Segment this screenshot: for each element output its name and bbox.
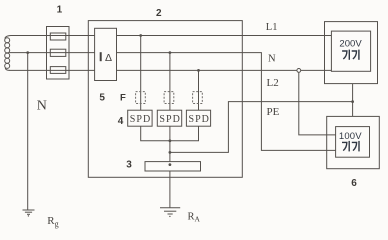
svg-text:L2: L2: [267, 77, 279, 89]
svg-text:4: 4: [118, 116, 124, 127]
200V appliance outer enclosure: [325, 22, 378, 84]
junction node on N at earthing riser: [26, 51, 29, 54]
wire L1 (top phase conductor): [11, 35, 332, 37]
100V appliance outer enclosure 6: [327, 116, 380, 168]
SPD disconnector fuse F1 (dashed): [136, 92, 146, 104]
100V appliance hangul "kiki": [342, 141, 359, 152]
svg-text:N: N: [268, 53, 276, 64]
terminal node (open circle) on L2 feeding 100V appliance: [297, 69, 301, 73]
svg-text:100V: 100V: [339, 131, 362, 142]
svg-text:1: 1: [57, 5, 63, 16]
svg-text:L1: L1: [266, 22, 278, 33]
junction node L2/SPD3: [197, 69, 200, 72]
junction node L1/SPD1: [139, 34, 142, 37]
RCD / breaker U5 (I-delta device): [95, 28, 117, 80]
RCD text I-delta: [100, 52, 112, 64]
svg-text:N: N: [37, 98, 47, 113]
wire N (centre-tap neutral: horizontal run, jog down at x=261, feed to 100V appliance): [9, 53, 335, 151]
wire SPD output bus: [141, 126, 199, 141]
SPD arrester 1: [128, 110, 152, 126]
svg-text:Δ: Δ: [105, 52, 112, 64]
svg-text:200V: 200V: [339, 38, 362, 49]
svg-text:PE: PE: [267, 106, 280, 118]
junction node PE link / earth lead: [169, 151, 172, 154]
fuse F-L2: [50, 67, 66, 74]
fuse F-L1: [50, 33, 66, 40]
200V appliance inner box: [331, 31, 370, 71]
junction node inside earth busbar: [169, 163, 172, 166]
distribution board enclosure 2: [88, 21, 242, 178]
wire SPD branch 3 (from L2 through fuse F3): [198, 70, 200, 110]
wire neutral earthing riser to Rg: [27, 53, 29, 210]
SPD disconnector fuse F3 (dashed): [193, 92, 203, 104]
junction node PE / enclosure earth drop: [351, 100, 354, 103]
svg-text:SPD: SPD: [159, 114, 179, 125]
fuse cutout box 1 (service fuse block): [47, 27, 70, 80]
earth busbar 3: [145, 162, 201, 171]
SPD arrester 3: [186, 110, 210, 126]
svg-text:3: 3: [126, 160, 132, 171]
100V appliance inner box: [336, 127, 370, 158]
ground symbol RA (SPD earth electrode): [160, 208, 180, 217]
wire SPD2 earth down-lead through earth bar to RA: [169, 126, 171, 207]
wire 200V enclosure earth drop to PE: [352, 84, 354, 117]
wire L2 tap from node to 100V appliance: [299, 70, 336, 134]
svg-text:F: F: [120, 92, 126, 103]
wire SPD branch 1 (from L1 through fuse F1): [140, 36, 142, 111]
ground symbol Rg (system earth): [23, 210, 35, 217]
transformer secondary coil T: [5, 36, 11, 71]
200V appliance hangul "kiki": [342, 50, 359, 60]
wire L2 (bottom phase conductor): [10, 69, 332, 71]
svg-text:5: 5: [99, 92, 105, 103]
wire SPD branch 2 (from N through fuse F2): [169, 53, 171, 111]
svg-text:6: 6: [351, 178, 357, 189]
junction node SPD bus / earth lead: [169, 139, 172, 142]
svg-text:2: 2: [156, 8, 162, 19]
SPD arrester 2: [157, 110, 181, 126]
svg-text:SPD: SPD: [130, 114, 150, 125]
wire PE (protective earth: from earth bar link up and right to appliance enclosures): [170, 102, 353, 153]
svg-text:SPD: SPD: [189, 114, 209, 125]
SPD disconnector fuse F2 (dashed): [164, 92, 174, 104]
junction node N/SPD2: [169, 51, 172, 54]
fuse F-N: [50, 49, 66, 56]
